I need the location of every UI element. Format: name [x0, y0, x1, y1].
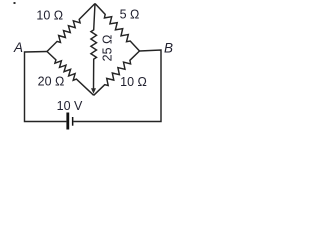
svg-text:A: A — [13, 40, 23, 55]
svg-text:B: B — [164, 41, 173, 56]
svg-text:10 V: 10 V — [57, 99, 83, 113]
svg-text:20 Ω: 20 Ω — [38, 75, 65, 89]
svg-text:25 Ω: 25 Ω — [101, 35, 115, 62]
svg-text:5 Ω: 5 Ω — [120, 8, 140, 22]
svg-text:10 Ω: 10 Ω — [120, 75, 147, 89]
svg-text:10 Ω: 10 Ω — [36, 9, 63, 23]
